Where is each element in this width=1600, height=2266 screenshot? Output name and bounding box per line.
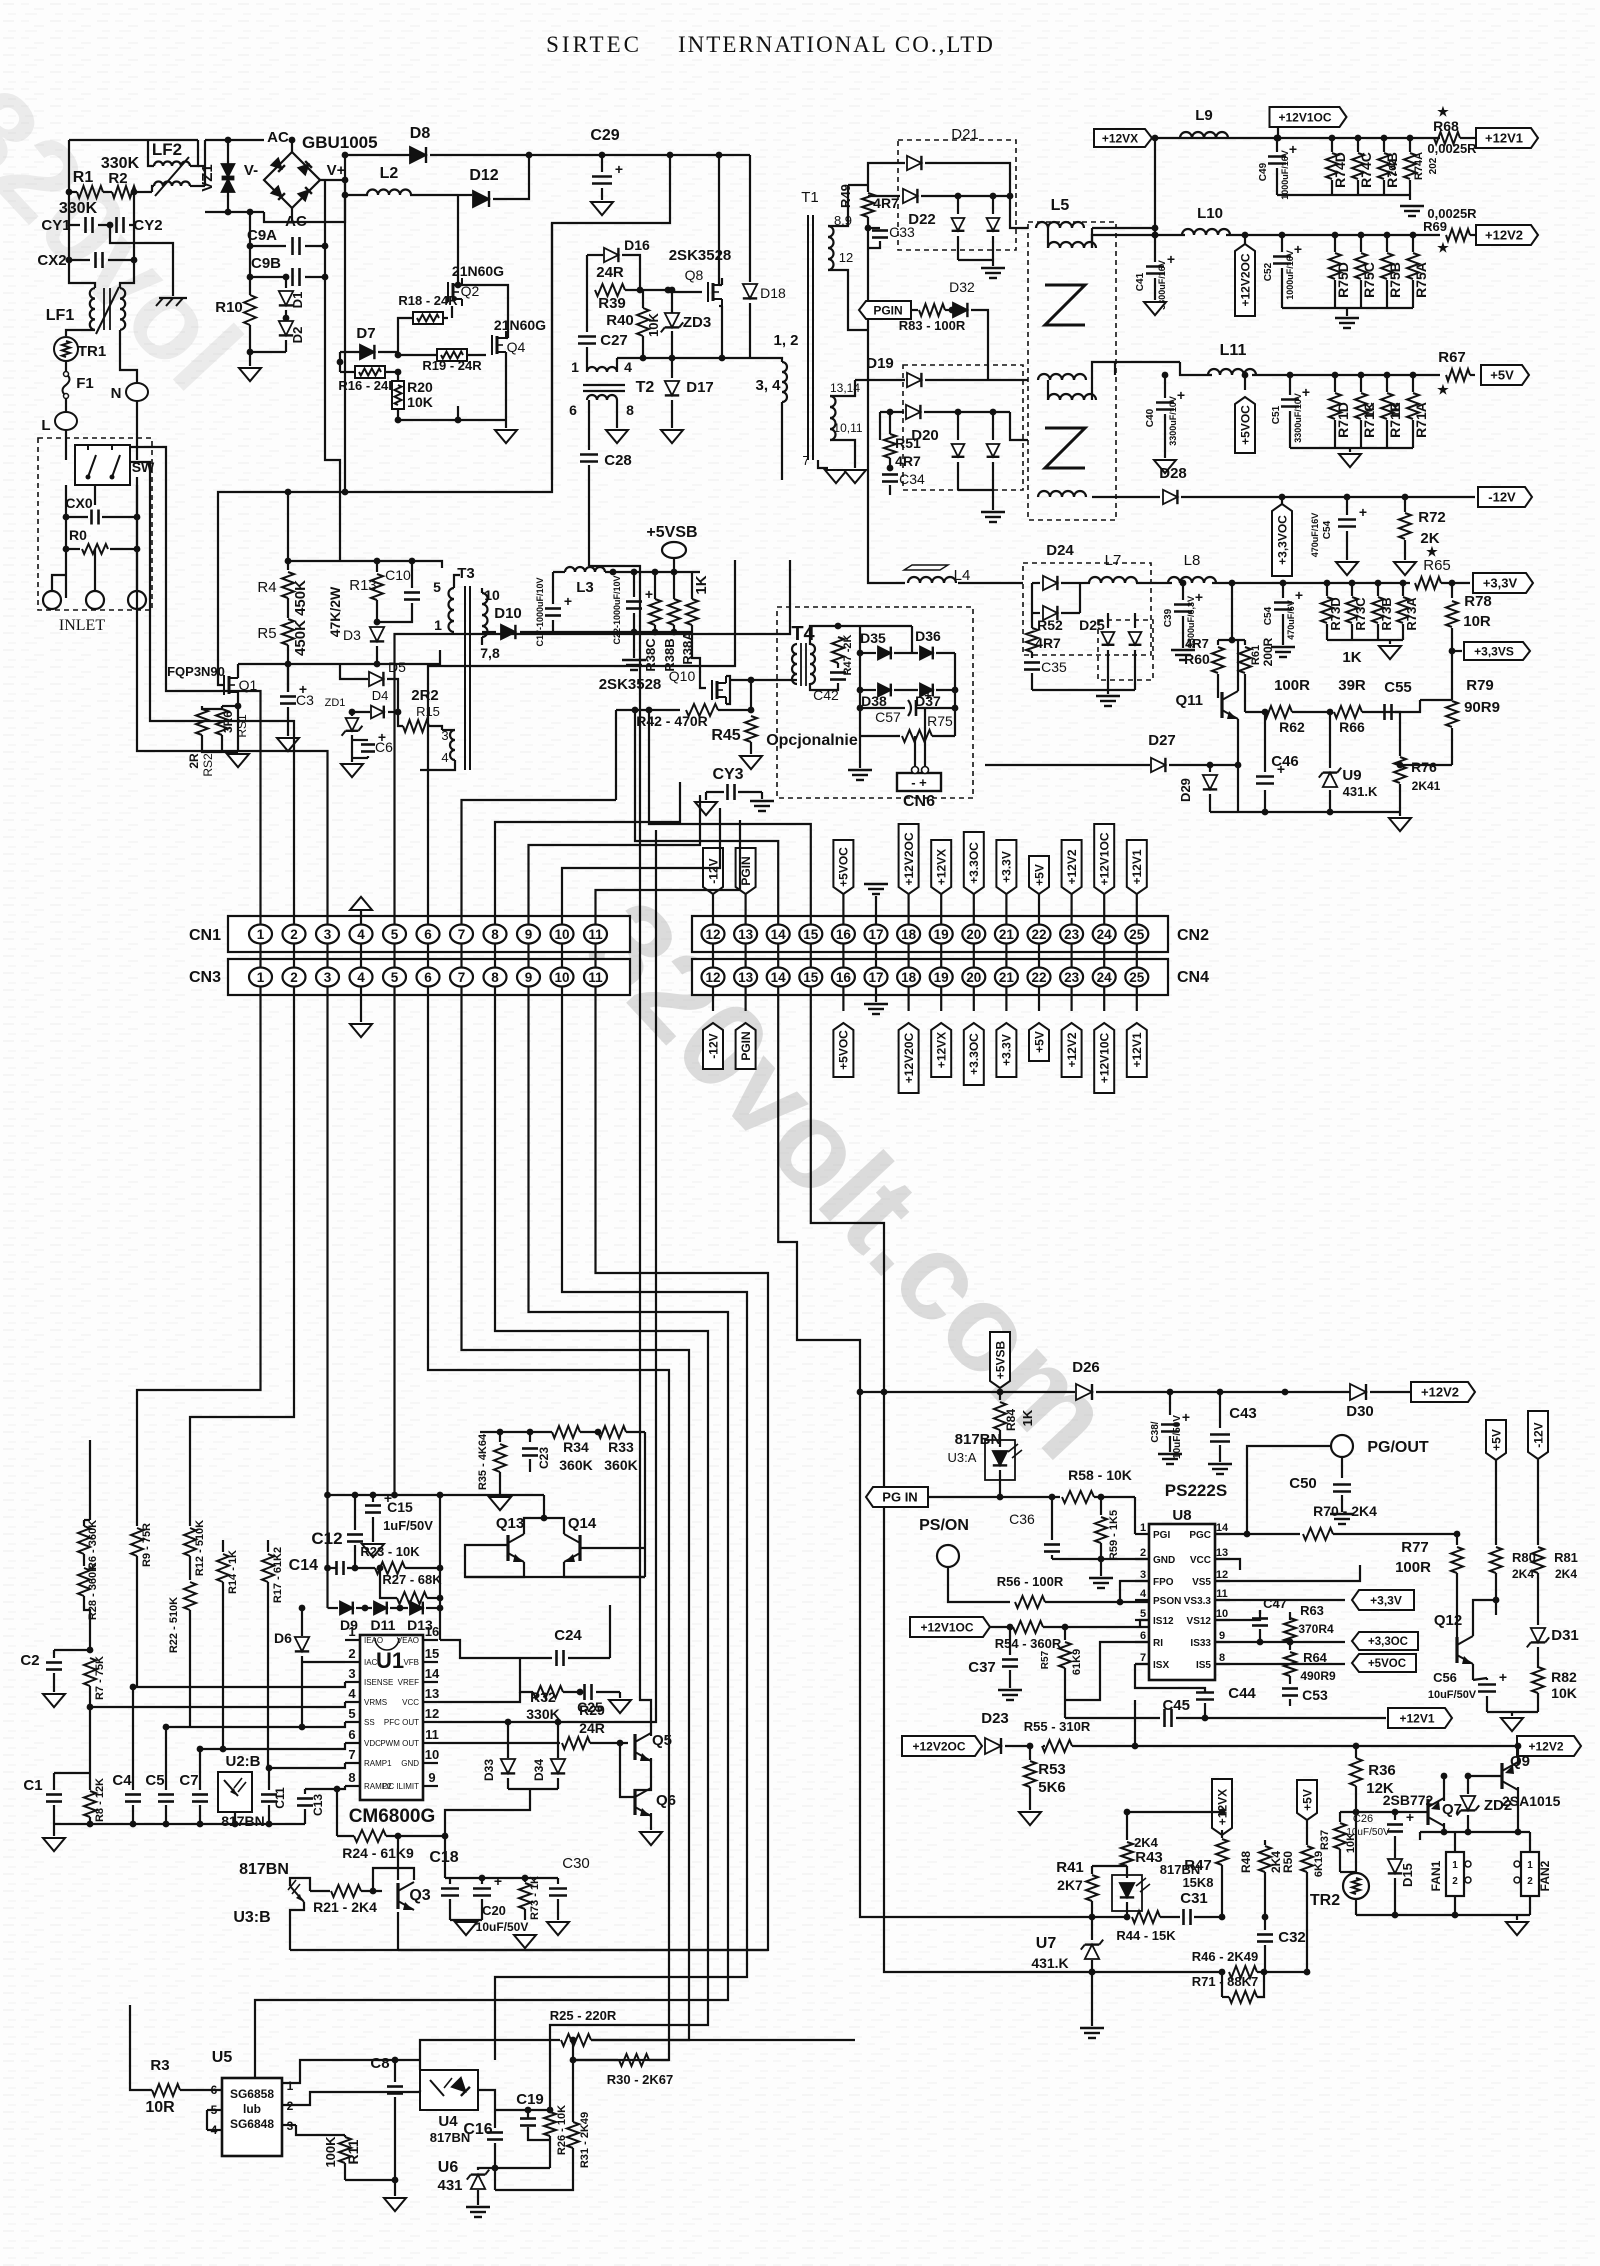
wire U5 pin1 up <box>282 2060 420 2083</box>
svg-text:+12VX: +12VX <box>1102 131 1138 145</box>
svg-text:Q6: Q6 <box>656 1792 676 1809</box>
CN4 pin 18 <box>897 968 920 987</box>
wire 5V rail <box>1092 362 1180 380</box>
svg-text:Q8: Q8 <box>685 267 704 283</box>
svg-text:GBU1005: GBU1005 <box>302 133 378 152</box>
wire R74 bottoms <box>1277 194 1410 196</box>
ground under C3 <box>277 738 299 751</box>
wire staircase to CN1 pin1 <box>131 447 261 924</box>
diode D22 <box>868 195 900 197</box>
resistor R74A <box>1409 138 1411 152</box>
wire Q11 emitter <box>1237 730 1239 765</box>
ground R75 <box>1346 308 1348 316</box>
+12VX flag fan <box>1212 1779 1232 1835</box>
CN4 pin 14 <box>767 968 790 987</box>
wire D33 D34 bottom <box>508 1788 558 1790</box>
svg-text:Q3: Q3 <box>409 1887 430 1904</box>
svg-text:431.K: 431.K <box>1343 784 1378 799</box>
svg-text:C43: C43 <box>1229 1405 1257 1422</box>
svg-text:15: 15 <box>425 1646 439 1661</box>
wire U1 pin3 row <box>133 1682 345 1687</box>
wire 5VSB rail to D26 <box>860 1391 1075 1393</box>
resistors R71D R71C R71B R71A <box>1334 375 1336 392</box>
fuse F1 <box>65 361 67 374</box>
svg-text:C1: C1 <box>23 1777 42 1794</box>
svg-text:VEAO: VEAO <box>397 1636 419 1645</box>
CN4 pin 13 <box>734 968 757 987</box>
resistor R21-2K4 <box>310 1890 330 1892</box>
svg-text:2R: 2R <box>187 753 201 769</box>
CN1 pin 7 <box>450 925 473 944</box>
svg-text:R30 - 2K67: R30 - 2K67 <box>607 2072 673 2087</box>
svg-text:R75C: R75C <box>1361 262 1377 298</box>
svg-text:19: 19 <box>934 970 949 985</box>
capacitor C38 <box>1169 1392 1171 1415</box>
svg-text:C9B: C9B <box>251 255 281 272</box>
svg-text:3: 3 <box>324 970 332 985</box>
wire U4 top drop <box>419 2060 421 2070</box>
diode D33 <box>507 1722 509 1758</box>
earth under R59 <box>1089 1577 1113 1579</box>
svg-text:SG6858: SG6858 <box>230 2087 274 2101</box>
wire Q13 Q14 net <box>480 1544 508 1546</box>
svg-text:431.K: 431.K <box>1031 1955 1068 1971</box>
row R46 <box>1089 1969 1096 1976</box>
U8 pin 4 PSON <box>1135 1599 1149 1601</box>
resistor R40 10K <box>637 308 649 336</box>
svg-text:15: 15 <box>803 970 819 985</box>
svg-text:LF1: LF1 <box>46 307 75 324</box>
svg-text:4: 4 <box>348 1686 356 1701</box>
svg-text:202: 202 <box>1428 157 1439 174</box>
transistor Q3 <box>396 1883 399 1909</box>
diode D16 <box>587 254 603 256</box>
svg-text:★: ★ <box>1437 240 1449 255</box>
svg-text:R84: R84 <box>1004 1409 1018 1431</box>
wire CN3 pin7 staircase <box>462 987 690 2040</box>
svg-text:12: 12 <box>839 250 853 265</box>
+12V10C flag <box>910 1617 990 1637</box>
svg-text:2K4: 2K4 <box>1134 1835 1159 1850</box>
diodes D21 pair vertical <box>957 196 959 214</box>
resistor R4 <box>282 572 294 598</box>
resistors R73D R73C R73B R73A <box>1326 583 1328 596</box>
svg-text:PSON: PSON <box>1153 1596 1181 1607</box>
svg-text:C47: C47 <box>1263 1596 1287 1611</box>
ground D20 <box>992 490 994 510</box>
arrow above CN1 pin 4 <box>350 897 372 910</box>
svg-text:R49: R49 <box>838 184 853 208</box>
ground under D17 <box>661 430 683 443</box>
net flag +12V1 above CN2 pin 25 <box>1127 840 1147 894</box>
svg-text:+12V1OC: +12V1OC <box>920 1620 973 1634</box>
wire rail2 <box>287 492 289 570</box>
svg-text:CN2: CN2 <box>1177 927 1209 944</box>
resistor R72 2K <box>1402 494 1409 501</box>
svg-text:R16 - 24R: R16 - 24R <box>338 378 398 393</box>
svg-text:24: 24 <box>1097 927 1113 942</box>
resistor R52 4R7 <box>1031 613 1033 628</box>
svg-text:C5: C5 <box>145 1772 164 1789</box>
svg-text:2R2: 2R2 <box>411 687 439 704</box>
svg-text:R33: R33 <box>608 1439 634 1455</box>
capacitor C56 <box>1478 1683 1496 1686</box>
wire 5VSB bottom rail <box>553 631 692 633</box>
wire Q8 drain <box>718 155 720 285</box>
svg-text:VREF: VREF <box>398 1678 419 1687</box>
svg-text:C56: C56 <box>1433 1670 1457 1685</box>
svg-text:39R: 39R <box>1338 677 1366 694</box>
wire CN3 pin9 staircase <box>255 987 728 2078</box>
wire to CN1 pin9 <box>529 795 701 924</box>
svg-text:21N60G: 21N60G <box>494 317 546 333</box>
diode D5 <box>340 664 368 679</box>
svg-text:VZ1: VZ1 <box>199 164 216 192</box>
wire U1 pin8 row <box>305 1786 345 1789</box>
resistor R2 <box>112 186 136 198</box>
CN3 pin 9 <box>517 968 540 987</box>
svg-text:R2: R2 <box>108 170 127 187</box>
svg-text:V+: V+ <box>327 162 346 179</box>
CN4 pin 15 <box>799 968 822 987</box>
svg-text:+3.3V: +3.3V <box>1000 851 1014 883</box>
svg-text:D38: D38 <box>861 693 887 709</box>
svg-text:C51: C51 <box>1271 405 1282 424</box>
resistors R75D R75C R75B R75A <box>1334 235 1336 252</box>
diode D31 <box>1537 1600 1539 1625</box>
wire CY mid to chassis gnd <box>110 225 173 296</box>
svg-text:+5V: +5V <box>1032 864 1046 886</box>
wire SW to CX0 <box>65 485 67 598</box>
svg-text:2: 2 <box>1452 1876 1458 1887</box>
svg-text:100R: 100R <box>1274 677 1310 694</box>
wire snubber bottom <box>352 757 368 759</box>
svg-text:R29: R29 <box>579 1702 605 1718</box>
CN3 pin 8 <box>484 968 507 987</box>
U8 pin 8 IS5 <box>1215 1663 1230 1665</box>
U1 pin 2 IAC <box>345 1661 360 1663</box>
svg-text:R73D: R73D <box>1328 597 1343 630</box>
resistor R83-100R <box>911 309 918 311</box>
capacitor C41 <box>1146 265 1164 268</box>
wire feeder down to row 1972 <box>884 1392 1092 1972</box>
D21 dashed boxes <box>898 140 1016 250</box>
resistor R70-2K4 <box>1303 1528 1333 1540</box>
svg-text:6: 6 <box>424 970 432 985</box>
wire drain bus Q2 <box>457 195 459 285</box>
resistor R7-75K <box>84 1658 96 1686</box>
inlet terminals <box>43 591 61 609</box>
svg-text:450K 450K: 450K 450K <box>292 580 309 656</box>
svg-text:R75B: R75B <box>1387 262 1403 298</box>
wire RI pin6 <box>1065 1642 1149 1700</box>
svg-text:R37: R37 <box>1319 1830 1331 1850</box>
svg-text:6: 6 <box>569 402 577 418</box>
diode D27 <box>985 764 1150 766</box>
svg-text:R79: R79 <box>1466 677 1494 694</box>
svg-text:R81: R81 <box>1554 1550 1578 1565</box>
U8 pin 13 VCC <box>1215 1558 1230 1560</box>
wire CN3 pin1 to R9 <box>137 987 261 1516</box>
svg-text:18: 18 <box>901 927 917 942</box>
svg-text:FQP3N90: FQP3N90 <box>167 664 225 679</box>
svg-text:10K: 10K <box>407 394 433 410</box>
svg-text:+3.3V: +3.3V <box>1000 1034 1014 1066</box>
optocoupler U4 817BN <box>420 2070 478 2110</box>
thermistor TR2 <box>1343 1873 1369 1899</box>
wire VCC pin13 <box>1215 1559 1240 1570</box>
svg-text:21N60G: 21N60G <box>452 263 504 279</box>
CN1 pin 8 <box>484 925 507 944</box>
CN3 pin 3 <box>316 968 339 987</box>
svg-text:14: 14 <box>1216 1522 1229 1534</box>
wire to CN1 pin5 <box>395 560 791 924</box>
svg-text:330K: 330K <box>526 1706 559 1722</box>
svg-text:L4: L4 <box>954 567 971 584</box>
svg-text:U3:B: U3:B <box>233 1909 270 1926</box>
svg-text:R54 - 360R: R54 - 360R <box>995 1636 1062 1651</box>
svg-text:8: 8 <box>626 402 634 418</box>
svg-text:R77: R77 <box>1401 1539 1429 1556</box>
earth below CN4 pin 17 <box>875 987 877 1002</box>
wire U1 pin7 row <box>268 1763 345 1768</box>
capacitor C35 <box>1031 652 1033 658</box>
svg-text:CN4: CN4 <box>1177 969 1209 986</box>
svg-text:R50: R50 <box>1281 1851 1295 1873</box>
resistor R56-100R <box>1015 1596 1045 1608</box>
svg-text:+: + <box>494 1873 502 1889</box>
inductor L4 <box>908 577 956 583</box>
wire CN3 pin5 down <box>393 987 395 1495</box>
svg-text:VDC: VDC <box>364 1739 381 1748</box>
capacitor C11 <box>268 1768 270 1790</box>
wire VCC row pin13 <box>438 1692 520 1702</box>
svg-text:431: 431 <box>437 2177 462 2194</box>
diode D29 <box>1207 762 1214 769</box>
svg-text:D12: D12 <box>469 167 498 184</box>
resistor R48 2K4 <box>1264 1840 1266 1845</box>
ground under R10 <box>239 368 261 381</box>
svg-text:+3,3V: +3,3V <box>1483 576 1518 591</box>
svg-text:D29: D29 <box>1178 778 1193 802</box>
svg-text:24: 24 <box>1097 970 1113 985</box>
svg-text:2: 2 <box>1527 1876 1533 1887</box>
inductor L9 <box>1180 132 1228 138</box>
svg-text:1: 1 <box>287 2079 294 2093</box>
capacitor C42 <box>837 663 839 668</box>
net flag +5VOC above CN2 pin 16 <box>833 840 853 894</box>
svg-text:C41: C41 <box>1135 272 1146 291</box>
diode D24b <box>1032 612 1040 614</box>
net flag +12VX above CN2 pin 19 <box>931 840 951 894</box>
svg-text:R64: R64 <box>1303 1650 1328 1665</box>
capacitor C49 <box>1276 138 1278 152</box>
wire fan ground rail <box>1356 1914 1530 1916</box>
svg-text:R58 - 10K: R58 - 10K <box>1068 1467 1132 1483</box>
svg-text:Q11: Q11 <box>1175 692 1203 709</box>
wire C24 row <box>440 1640 530 1658</box>
svg-text:Opcjonalnie: Opcjonalnie <box>766 732 858 749</box>
svg-text:R71A: R71A <box>1413 402 1429 438</box>
svg-text:D18: D18 <box>760 285 786 301</box>
svg-text:R21 - 2K4: R21 - 2K4 <box>313 1899 377 1915</box>
wire C55 to R79 <box>1420 699 1452 701</box>
svg-text:R60: R60 <box>1184 651 1210 667</box>
wire to CN6 <box>859 736 861 768</box>
svg-text:+: + <box>1406 1809 1414 1825</box>
svg-text:10uF/50V: 10uF/50V <box>1172 1415 1183 1459</box>
svg-text:+: + <box>1499 1669 1507 1685</box>
svg-text:R48: R48 <box>1239 1851 1253 1873</box>
wire U4 right to C16 <box>478 2090 495 2110</box>
svg-text:20: 20 <box>966 927 981 942</box>
svg-text:C45: C45 <box>1162 1697 1190 1714</box>
wire to CN1 pin6 <box>428 560 735 924</box>
svg-text:23: 23 <box>1064 970 1080 985</box>
+3,3V flag <box>1352 1590 1414 1610</box>
svg-text:AC: AC <box>285 213 307 230</box>
svg-text:R39: R39 <box>598 295 626 312</box>
CN4 pin 17 <box>865 968 888 987</box>
svg-text:R10: R10 <box>215 299 243 316</box>
inductor L5 box <box>1028 222 1116 520</box>
svg-text:L11: L11 <box>1220 342 1247 359</box>
svg-text:Q12: Q12 <box>1434 1612 1462 1629</box>
svg-text:2K7: 2K7 <box>1057 1877 1083 1893</box>
resistor R6-360K <box>78 1526 90 1554</box>
svg-text:16: 16 <box>836 970 852 985</box>
svg-text:D17: D17 <box>686 379 714 396</box>
svg-text:PGC: PGC <box>1189 1530 1211 1541</box>
svg-text:R47 -2K: R47 -2K <box>842 634 854 675</box>
svg-text:1K: 1K <box>1363 402 1377 418</box>
ground Q11 area <box>1399 812 1401 816</box>
thermistor TR1 <box>66 330 95 336</box>
net flag +12VX below CN4 pin 19 <box>931 1023 951 1077</box>
svg-text:CY2: CY2 <box>133 217 162 234</box>
svg-text:Q10: Q10 <box>669 668 696 684</box>
svg-text:R17 - 61K2: R17 - 61K2 <box>272 1547 284 1603</box>
CN4 pin 23 <box>1060 968 1083 987</box>
svg-text:Q14: Q14 <box>568 1515 597 1532</box>
capacitor C53 <box>1282 1687 1298 1690</box>
svg-text:3, 4: 3, 4 <box>755 377 781 394</box>
svg-text:C52: C52 <box>1263 262 1274 281</box>
svg-text:7: 7 <box>348 1747 355 1762</box>
diode D9 <box>328 1607 339 1609</box>
U1 pin 3 ISENSE <box>345 1681 360 1683</box>
CN1 pin 2 <box>283 925 306 944</box>
capacitor C6 <box>352 739 368 741</box>
svg-text:12: 12 <box>705 970 720 985</box>
CN4 pin 24 <box>1093 968 1116 987</box>
+5V flag <box>1481 365 1529 385</box>
CN3 pin 10 <box>551 968 574 987</box>
svg-text:3: 3 <box>348 1666 355 1681</box>
net flag +3.3V above CN2 pin 21 <box>996 840 1016 894</box>
arrow below CN3 pin 4 <box>360 987 362 1022</box>
capacitor C13 <box>304 1789 306 1794</box>
resistor R3 10R <box>130 2005 152 2090</box>
resistor R41 2K7 <box>1091 1866 1093 1874</box>
svg-text:2K41: 2K41 <box>1412 779 1441 793</box>
svg-text:1: 1 <box>434 617 442 633</box>
CN2 pin 22 <box>1028 925 1051 944</box>
svg-text:D13: D13 <box>407 1617 433 1633</box>
svg-text:4: 4 <box>1140 1588 1147 1600</box>
svg-text:C54: C54 <box>1263 606 1274 625</box>
-12V flag <box>1478 487 1532 507</box>
svg-text:11: 11 <box>1216 1588 1228 1600</box>
U1 pin 1 IEAO <box>345 1639 360 1641</box>
earth above CN2 pin 17 <box>875 896 877 924</box>
diode D24a <box>1032 582 1040 584</box>
diode D11 <box>356 1607 372 1609</box>
svg-text:5: 5 <box>433 579 441 595</box>
diode D15 <box>1388 1859 1402 1873</box>
svg-text:RAMP1: RAMP1 <box>364 1759 392 1768</box>
diode D13 <box>390 1607 408 1609</box>
resistor R59-1K5 <box>1098 1494 1105 1501</box>
svg-text:C34: C34 <box>899 471 925 487</box>
wire T2 pin4 to source rail <box>617 357 750 359</box>
svg-text:2: 2 <box>290 927 298 942</box>
svg-text:Q7: Q7 <box>1442 1801 1462 1818</box>
svg-text:14: 14 <box>771 970 787 985</box>
svg-text:1: 1 <box>1140 1522 1146 1534</box>
U1 pin 14 VREF <box>423 1681 438 1683</box>
resistor R55-310R <box>1027 1743 1034 1750</box>
svg-text:10,11: 10,11 <box>833 421 862 435</box>
resistor R36 12K <box>1350 1758 1362 1786</box>
svg-text:FPO: FPO <box>1153 1577 1174 1588</box>
IC U1 CM6800G <box>360 1635 423 1800</box>
resistor R80 2K4 <box>1495 1457 1497 1545</box>
diode D12 <box>473 191 489 207</box>
svg-text:14: 14 <box>771 927 787 942</box>
CN2 pin 20 <box>962 925 985 944</box>
ground T1 sec <box>844 470 866 483</box>
wire T4 sec top <box>810 626 912 645</box>
+3.3VOC flag <box>1272 504 1292 576</box>
wire PFC OUT pin12 long <box>438 830 656 1722</box>
terminal N <box>120 330 137 382</box>
capacitor CX2 <box>69 225 90 260</box>
boxed resistor R19-24R <box>437 349 467 361</box>
capacitor C54b <box>1280 580 1287 587</box>
resistor R30-2K67 <box>573 2059 618 2061</box>
svg-text:Q5: Q5 <box>652 1732 672 1749</box>
wire R42 left vertical <box>615 710 617 800</box>
svg-text:2K4: 2K4 <box>1512 1567 1534 1581</box>
svg-text:+5VOC: +5VOC <box>837 1030 851 1070</box>
svg-text:TR2: TR2 <box>1310 1892 1340 1909</box>
resistor R1 <box>77 186 103 198</box>
svg-text:R32: R32 <box>530 1689 556 1705</box>
svg-text:R65: R65 <box>1423 557 1451 574</box>
net flag +12V1OC above CN2 pin 24 <box>1094 824 1114 894</box>
svg-text:9: 9 <box>525 927 533 942</box>
svg-text:R67: R67 <box>1438 349 1466 366</box>
capacitor CY1 <box>69 192 80 225</box>
CN1 pin 6 <box>417 925 440 944</box>
svg-text:10R: 10R <box>1463 613 1491 630</box>
svg-text:+: + <box>1182 1409 1190 1425</box>
svg-text:330K: 330K <box>59 200 98 217</box>
resistor R32 330K <box>533 1686 563 1698</box>
diode D23 <box>985 1738 1001 1754</box>
svg-text:C16: C16 <box>463 2121 492 2138</box>
